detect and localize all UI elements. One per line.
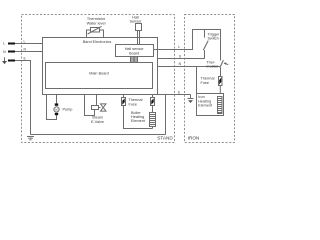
steam e-valve body (101, 104, 107, 111)
svg-text:N: N (3, 50, 6, 54)
thermal fuse F1 branch (122, 95, 153, 129)
steam e-valve coil (92, 106, 101, 110)
svg-text:Sensor: Sensor (129, 19, 142, 23)
svg-text:STAND: STAND (157, 136, 173, 141)
svg-text:Pump: Pump (63, 108, 73, 112)
svg-text:E-Valve: E-Valve (91, 120, 104, 124)
hall sensor board box (116, 45, 154, 57)
main board (46, 63, 153, 89)
pump branch wires (47, 95, 57, 120)
ribbon hall board to main board (131, 57, 138, 63)
thermostat (220, 60, 228, 76)
ground symbol iron (188, 95, 194, 104)
wire L stand-to-iron (154, 30, 221, 61)
boiler heating element (150, 113, 156, 129)
IRON dashed enclosure (185, 15, 235, 143)
wire S stand-to-iron (158, 58, 205, 60)
thermal fuse F3 (iron) (219, 77, 223, 94)
terminal L (8, 43, 43, 45)
wire L-in (15, 43, 43, 45)
svg-text:Band Electronics: Band Electronics (83, 40, 112, 44)
steam valve branch wires (85, 95, 97, 116)
svg-text:Element: Element (131, 119, 146, 123)
band electronics box (43, 38, 158, 95)
thermal fuse F2 + boiler heating element branch (151, 95, 155, 113)
wire sensor to board (137, 31, 139, 45)
svg-text:L: L (3, 41, 5, 45)
svg-text:Fuse: Fuse (201, 81, 209, 85)
wire E-down (15, 61, 31, 135)
svg-text:Fuse: Fuse (129, 102, 137, 106)
terminal N (8, 51, 43, 53)
iron heating element group box (197, 94, 224, 116)
svg-text:Main Board: Main Board (89, 71, 108, 75)
terminal E (8, 60, 31, 135)
svg-text:IRON: IRON (188, 136, 200, 141)
svg-text:mostat: mostat (206, 65, 218, 69)
svg-text:Element: Element (198, 104, 213, 108)
wire E stand-to-iron (158, 95, 191, 135)
thermistor water level (87, 26, 104, 37)
svg-text:Board: Board (129, 52, 139, 56)
svg-text:L: L (24, 39, 26, 43)
hall sensor (136, 24, 142, 45)
earth bus (31, 134, 166, 136)
svg-text:Hall sensor: Hall sensor (125, 47, 145, 51)
pump M1 (54, 103, 59, 115)
ground symbol stand (27, 137, 34, 140)
STAND dashed enclosure (22, 15, 175, 143)
trigger switch (203, 30, 208, 59)
iron heating element (218, 97, 223, 114)
svg-text:L: L (178, 45, 180, 49)
wire N stand-to-iron (158, 67, 220, 94)
svg-text:Switch: Switch (208, 37, 219, 41)
svg-text:Water level: Water level (87, 21, 106, 25)
wire N-in (15, 51, 43, 53)
earth symbol at mains (2, 57, 7, 64)
wire N branch to element box (196, 67, 198, 94)
